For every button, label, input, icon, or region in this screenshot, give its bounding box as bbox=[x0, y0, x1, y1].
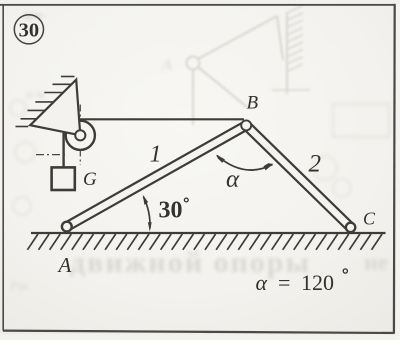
svg-text:A: A bbox=[161, 57, 172, 74]
svg-text:A: A bbox=[57, 253, 72, 277]
svg-text:30: 30 bbox=[159, 198, 183, 224]
wall bracket (triangle plate over pulley) bbox=[30, 80, 80, 136]
ground hatching bbox=[27, 234, 382, 250]
svg-text:и м: и м bbox=[26, 86, 44, 101]
pin joint A bbox=[62, 222, 72, 232]
svg-text:движной опоры: движной опоры bbox=[70, 246, 311, 279]
svg-text:G: G bbox=[83, 169, 97, 190]
svg-text:не: не bbox=[364, 250, 389, 276]
problem number badge "30" bbox=[14, 15, 43, 44]
pulley hub pin bbox=[75, 130, 85, 140]
ground line bbox=[31, 232, 386, 234]
pin joint C bbox=[346, 223, 355, 232]
svg-text:1: 1 bbox=[150, 142, 162, 168]
svg-text:Рис: Рис bbox=[10, 278, 30, 293]
30 degree angle arc with arrows bbox=[143, 197, 150, 229]
rope from pulley down to weight G bbox=[62, 133, 64, 169]
svg-text:C: C bbox=[363, 209, 376, 229]
svg-text:α: α bbox=[226, 166, 240, 193]
svg-text:2: 2 bbox=[309, 151, 322, 178]
pulley wheel bbox=[66, 121, 95, 150]
weight G (box) bbox=[52, 167, 75, 190]
bar 1 (A to B) bbox=[67, 125, 246, 226]
svg-text:30: 30 bbox=[19, 20, 40, 42]
wall hatching bbox=[16, 77, 75, 127]
svg-text:B: B bbox=[247, 93, 259, 114]
alpha angle arc with arrows at B bbox=[217, 156, 273, 171]
pulley centre lines (dash-dot) bbox=[36, 105, 80, 166]
pin joint B bbox=[241, 120, 251, 130]
bar 2 (B to C) bbox=[246, 125, 350, 227]
rope from pulley to joint B (horizontal) bbox=[80, 118, 244, 120]
faint show-through marks (decorative) bbox=[187, 6, 311, 126]
